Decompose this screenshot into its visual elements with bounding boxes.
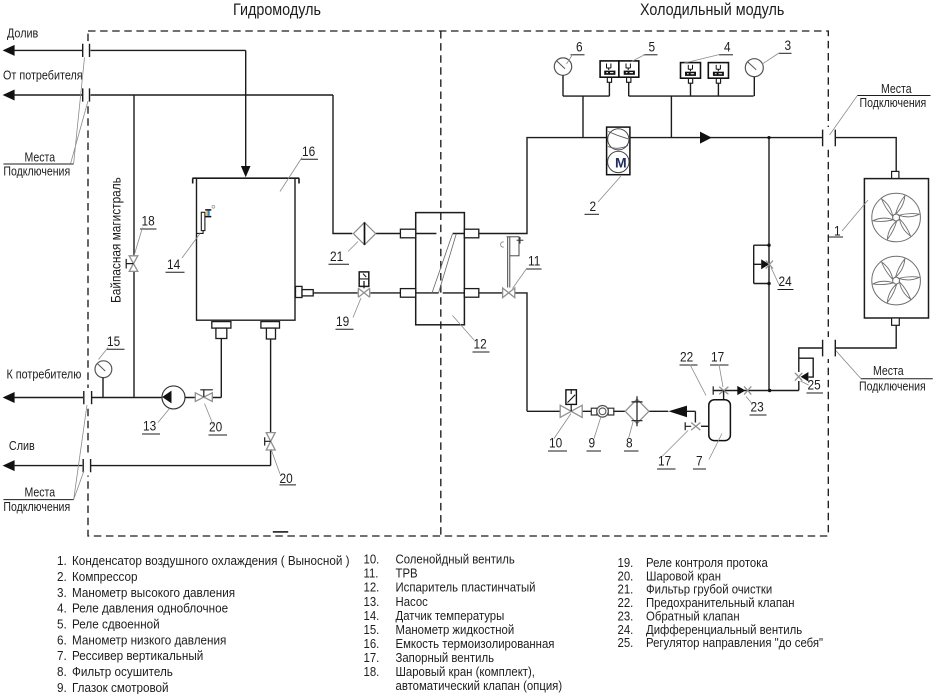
arrow liquid flow (points left) — [669, 406, 688, 418]
svg-text:Места: Места — [873, 365, 904, 378]
tank bottom nozzle right — [261, 322, 280, 339]
svg-text:13.: 13. — [364, 594, 380, 609]
wire liquid return from break to regulator 25 — [799, 348, 822, 372]
svg-text:Компрессор: Компрессор — [72, 569, 138, 584]
svg-text:Соленойдный вентиль: Соленойдный вентиль — [396, 552, 515, 567]
legend column 1 — [57, 553, 350, 694]
svg-text:5.: 5. — [57, 617, 67, 632]
wire discharge to condenser — [836, 138, 896, 172]
svg-text:6.: 6. — [57, 633, 67, 648]
ball valve 20 (vertical, drain) — [265, 433, 276, 450]
svg-text:5: 5 — [649, 39, 656, 55]
arrow От потребителя (points left) — [3, 90, 15, 101]
wire liquid line — [527, 410, 695, 412]
svg-text:18.: 18. — [364, 664, 380, 679]
wire Долив drop to tank — [245, 50, 247, 167]
svg-text:Датчик температуры: Датчик температуры — [396, 608, 505, 623]
wire Слив line — [14, 465, 271, 467]
svg-text:Шаровый кран (комплект),: Шаровый кран (комплект), — [396, 664, 535, 679]
node header tee — [768, 389, 771, 392]
back-pressure regulator 25 — [795, 358, 813, 390]
svg-text:ТРВ: ТРВ — [396, 566, 418, 581]
svg-text:16: 16 — [302, 143, 315, 159]
svg-text:Емкость термоизолированная: Емкость термоизолированная — [396, 636, 555, 651]
air condenser 1 — [864, 171, 928, 325]
svg-text:24: 24 — [779, 273, 792, 289]
legend column 3 — [618, 555, 824, 650]
svg-text:M: M — [615, 155, 627, 171]
solenoid valve 10 — [560, 390, 582, 418]
svg-text:19: 19 — [336, 313, 349, 329]
wire tank to flow relay 19 — [313, 292, 357, 294]
tank bottom nozzle left — [212, 322, 231, 339]
module boundary (dashed) — [88, 31, 828, 536]
svg-text:10: 10 — [549, 435, 562, 451]
differential valve 24 — [754, 244, 773, 286]
svg-text:Слив: Слив — [9, 438, 35, 453]
svg-text:14.: 14. — [364, 608, 380, 623]
arrow Слив (points left) — [3, 460, 15, 471]
tank side nozzle (right wall) — [296, 286, 314, 297]
svg-text:15.: 15. — [364, 622, 380, 637]
check valve 23 — [737, 386, 751, 395]
svg-text:14: 14 — [167, 256, 180, 272]
legend column 2 — [364, 552, 563, 694]
connection break Слив — [83, 459, 90, 472]
svg-text:23: 23 — [751, 399, 764, 415]
svg-text:Манометр низкого давления: Манометр низкого давления — [72, 633, 226, 648]
svg-text:Насос: Насос — [396, 594, 428, 609]
pump 13 — [162, 386, 185, 409]
pressure switch 4 (pair) — [681, 63, 729, 97]
wire hot-gas drop line — [768, 138, 770, 391]
double-dash mark on bottom border — [273, 531, 288, 533]
svg-text:17.: 17. — [364, 650, 380, 665]
svg-text:12: 12 — [474, 336, 487, 352]
svg-text:Манометр высокого давления: Манометр высокого давления — [72, 585, 235, 600]
svg-text:Глазок смотровой: Глазок смотровой — [72, 680, 169, 694]
thermoinsulated tank 16 — [192, 178, 299, 320]
svg-text:От потребителя: От потребителя — [3, 68, 83, 83]
plate evaporator 12 — [400, 213, 478, 325]
svg-text:7.: 7. — [57, 649, 67, 664]
svg-text:3: 3 — [785, 37, 792, 53]
svg-text:Холодильный модуль: Холодильный модуль — [640, 1, 784, 19]
svg-text:9.: 9. — [57, 680, 67, 694]
svg-text:20: 20 — [280, 470, 293, 486]
svg-text:13: 13 — [143, 418, 156, 434]
connection break От потребителя — [83, 88, 90, 101]
svg-text:4: 4 — [724, 39, 731, 55]
svg-text:16.: 16. — [364, 636, 380, 651]
wire bypass main — [133, 95, 135, 398]
svg-text:Манометр жидкостной: Манометр жидкостной — [396, 622, 515, 637]
svg-text:Места: Места — [881, 83, 912, 96]
filter drier 8 — [625, 396, 649, 426]
arrow Долив (points left) — [3, 45, 15, 56]
svg-text:7: 7 — [696, 453, 703, 469]
svg-text:Места: Места — [25, 487, 56, 500]
svg-text:25: 25 — [808, 377, 821, 393]
svg-text:К потребителю: К потребителю — [7, 367, 82, 382]
svg-text:8.: 8. — [57, 664, 67, 679]
svg-text:2: 2 — [590, 198, 597, 214]
svg-text:Подключения: Подключения — [3, 166, 70, 179]
liquid gauge 15 — [95, 361, 112, 398]
svg-text:10.: 10. — [364, 552, 380, 567]
wire liquid header to receiver — [713, 390, 799, 392]
wire pump to valve 20 — [185, 397, 222, 399]
svg-text:Подключения: Подключения — [860, 97, 927, 110]
module divider (dashed) — [440, 31, 442, 536]
wire condenser outlet — [836, 325, 896, 348]
svg-text:Рессивер вертикальный: Рессивер вертикальный — [72, 649, 203, 664]
ball valve 18 — [126, 256, 138, 272]
connection break Долив — [83, 44, 90, 57]
connection break liquid (bottom right) — [823, 340, 836, 357]
svg-text:Места: Места — [25, 152, 56, 165]
svg-text:Регулятор направления "до себя: Регулятор направления "до себя" — [646, 635, 823, 650]
wire evaporator liquid inlet from TXV — [479, 293, 527, 411]
svg-text:Гидромодуль: Гидромодуль — [233, 1, 321, 19]
svg-text:12.: 12. — [364, 580, 380, 595]
svg-text:1: 1 — [834, 223, 841, 239]
svg-text:Запорный вентиль: Запорный вентиль — [396, 650, 494, 665]
svg-text:Испаритель пластинчатый: Испаритель пластинчатый — [396, 580, 536, 595]
svg-text:автоматический клапан (опция): автоматический клапан (опция) — [396, 678, 563, 693]
border gaps at connection crossings — [85, 44, 832, 476]
svg-text:2.: 2. — [57, 569, 67, 584]
shut-off valve 17 (receiver outlet) — [685, 411, 709, 430]
wire return down-leg to evaporator — [333, 95, 400, 234]
svg-text:8: 8 — [626, 435, 633, 451]
svg-text:Конденсатор воздушного охлажде: Конденсатор воздушного охлаждения ( Выно… — [72, 553, 350, 568]
wire К потребителю line — [14, 397, 163, 399]
arrow into tank 16 — [241, 166, 251, 177]
dual pressure switch 5 — [600, 61, 639, 96]
shut-off valve 17 (receiver top) — [713, 386, 728, 399]
pressure gauge 6 — [554, 58, 571, 96]
node discharge tee — [767, 136, 770, 139]
TXV 11 — [500, 237, 523, 298]
svg-text:Байпасная магистраль: Байпасная магистраль — [108, 177, 124, 303]
svg-text:Подключения: Подключения — [859, 381, 926, 394]
connection break К потребителю — [84, 391, 92, 404]
svg-text:21: 21 — [330, 248, 343, 264]
flow relay 19 — [358, 272, 369, 297]
temperature sensor 14 — [197, 205, 215, 233]
arrow К потребителю (points left) — [3, 392, 15, 403]
svg-text:Реле давления одноблочное: Реле давления одноблочное — [72, 601, 228, 616]
wire suction gauge header — [563, 96, 609, 138]
connection break discharge (top right) — [823, 130, 836, 147]
wire discharge gauge header — [629, 96, 754, 138]
wire От потребителя line — [14, 94, 334, 96]
coarse filter 21 — [353, 222, 375, 244]
svg-text:25.: 25. — [618, 635, 634, 650]
wire Долив line — [14, 49, 246, 51]
wire flow relay to evaporator — [371, 292, 401, 294]
compressor 2 — [607, 127, 630, 175]
svg-text:3.: 3. — [57, 585, 67, 600]
sight glass 9 — [591, 406, 614, 418]
svg-text:6: 6 — [576, 39, 583, 55]
svg-text:Фильтр осушитель: Фильтр осушитель — [72, 664, 173, 679]
pressure gauge 3 — [745, 59, 763, 96]
wire evaporator suction riser to compressor — [479, 138, 607, 234]
svg-text:17: 17 — [711, 349, 724, 365]
svg-text:20: 20 — [209, 419, 222, 435]
wire tank right outlet down to drain — [270, 339, 272, 466]
svg-text:17: 17 — [658, 453, 671, 469]
wire discharge line — [630, 137, 822, 139]
svg-text:4.: 4. — [57, 601, 67, 616]
vertical receiver 7 — [709, 400, 731, 441]
svg-text:22: 22 — [680, 349, 693, 365]
svg-text:Реле сдвоенной: Реле сдвоенной — [72, 617, 160, 632]
svg-text:18: 18 — [142, 213, 155, 229]
svg-text:1.: 1. — [57, 553, 67, 568]
svg-text:Подключения: Подключения — [3, 501, 70, 514]
svg-text:11: 11 — [528, 253, 540, 269]
wire tank left outlet down — [220, 339, 222, 398]
svg-text:15: 15 — [107, 333, 120, 349]
arrow discharge flow (points right) — [700, 132, 712, 144]
svg-text:Долив: Долив — [7, 26, 38, 41]
svg-text:11.: 11. — [364, 566, 379, 581]
ball valve 20 (pump discharge) — [195, 390, 213, 402]
